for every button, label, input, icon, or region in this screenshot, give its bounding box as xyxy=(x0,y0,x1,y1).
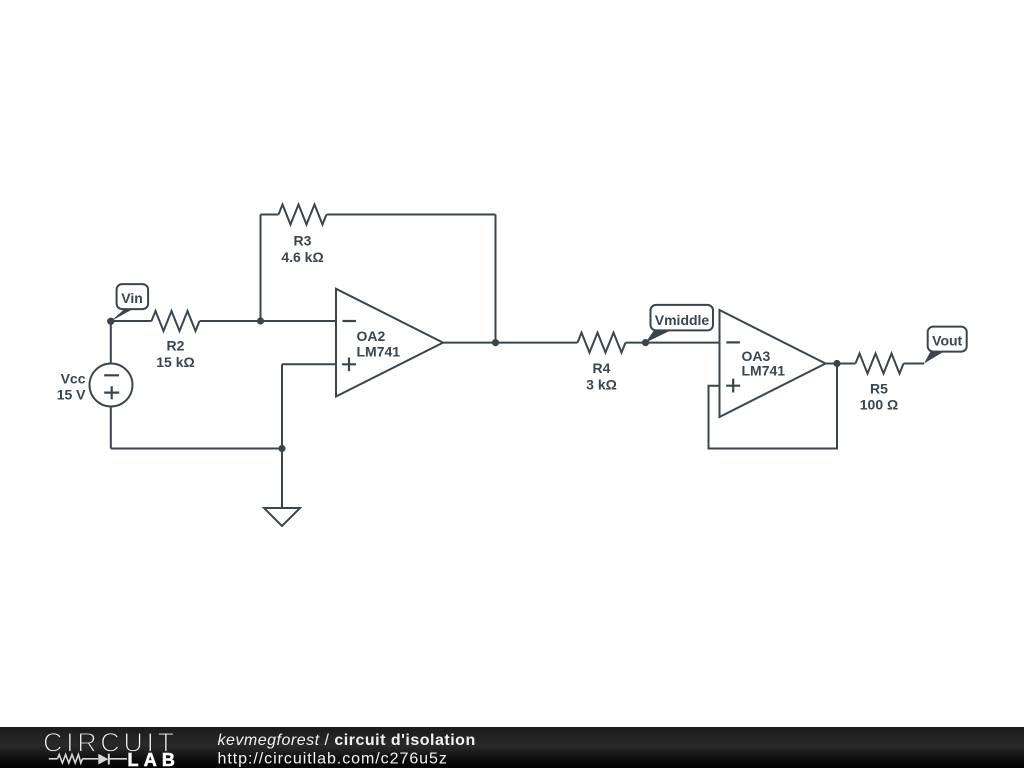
node flag box Vmiddle xyxy=(651,305,714,331)
logo wire mid xyxy=(83,758,99,760)
svg-text:http://circuitlab.com/c276u5z: http://circuitlab.com/c276u5z xyxy=(218,751,448,768)
svg-text:Vmiddle: Vmiddle xyxy=(655,312,710,328)
svg-text:R2: R2 xyxy=(167,338,185,354)
wire OA3 output to R5 xyxy=(826,363,856,365)
wire OA3 feedback from plus input xyxy=(709,364,838,449)
node junction dot ground rail xyxy=(278,445,285,452)
logo resistor zigzag xyxy=(57,755,82,764)
op-amp OA2 minus pin symbol xyxy=(343,320,357,322)
svg-text:Vin: Vin xyxy=(121,290,143,306)
voltage source V Vcc circle xyxy=(90,364,133,407)
svg-text:15 V: 15 V xyxy=(57,387,86,403)
flag pointer Vin xyxy=(111,309,133,321)
wire Vin node to Vcc top xyxy=(110,321,112,364)
flag pointer Vmiddle xyxy=(646,330,672,342)
node junction dot OA3 output xyxy=(833,360,840,367)
wire feedback down to output net xyxy=(495,215,497,343)
svg-text:R3: R3 xyxy=(294,233,312,249)
wire feedback up from junction xyxy=(260,215,262,322)
logo wire left xyxy=(49,758,58,760)
op-amp OA2 plus pin symbol xyxy=(342,358,356,372)
wire R5 to Vout flag xyxy=(904,363,925,365)
logo wire right xyxy=(109,758,127,760)
resistor R4 xyxy=(578,333,626,353)
svg-text:Vout: Vout xyxy=(932,332,962,348)
svg-text:3 kΩ: 3 kΩ xyxy=(586,376,617,392)
voltage source Vcc minus symbol xyxy=(104,374,119,376)
svg-text:100 Ω: 100 Ω xyxy=(860,396,898,412)
svg-text:LM741: LM741 xyxy=(742,363,786,379)
svg-text:LM741: LM741 xyxy=(357,344,401,360)
op-amp U OA3 triangle xyxy=(720,310,826,417)
svg-text:kevmegforest / circuit d'isola: kevmegforest / circuit d'isolation xyxy=(218,732,476,749)
wire junction to R3 xyxy=(261,214,279,216)
logo diode cathode bar xyxy=(108,754,110,765)
node junction dot R3 branch xyxy=(257,317,264,324)
node junction dot Vmiddle xyxy=(642,339,649,346)
logo diode xyxy=(98,754,108,765)
svg-text:R4: R4 xyxy=(593,360,611,376)
resistor R3 xyxy=(279,205,327,225)
wire junction to ground symbol xyxy=(281,449,283,509)
svg-text:Vcc: Vcc xyxy=(61,371,86,387)
svg-text:LAB: LAB xyxy=(128,750,181,768)
wire Vin node to R2 xyxy=(111,320,152,322)
wire OA2 plus input left xyxy=(282,363,336,365)
node junction dot feedback to output xyxy=(492,339,499,346)
wire OA2 plus input down to ground junction xyxy=(281,364,283,448)
op-amp OA3 plus pin symbol xyxy=(726,379,740,393)
svg-text:R5: R5 xyxy=(870,381,888,397)
wire R3 to right corner xyxy=(327,214,496,216)
svg-text:15 kΩ: 15 kΩ xyxy=(156,354,194,370)
wire OA2 output to R4 xyxy=(443,342,578,344)
flag pointer Vout xyxy=(924,352,944,364)
wire Vcc bottom down xyxy=(110,407,112,449)
wire R2 to OA2 minus input xyxy=(200,320,337,322)
node junction dot at Vin xyxy=(107,318,114,325)
resistor R2 xyxy=(152,311,200,331)
voltage source Vcc plus symbol xyxy=(104,386,119,399)
wire bottom rail to ground junction xyxy=(111,448,282,450)
resistor R5 xyxy=(856,354,904,374)
wire R4 to OA3 minus input xyxy=(626,342,720,344)
ground xyxy=(264,508,300,526)
svg-text:OA2: OA2 xyxy=(357,328,386,344)
svg-text:4.6 kΩ: 4.6 kΩ xyxy=(281,249,323,265)
op-amp OA3 minus pin symbol xyxy=(726,341,740,343)
op-amp U OA2 triangle xyxy=(336,289,443,397)
node flag box Vout xyxy=(928,327,967,352)
node flag box Vin xyxy=(117,284,149,309)
